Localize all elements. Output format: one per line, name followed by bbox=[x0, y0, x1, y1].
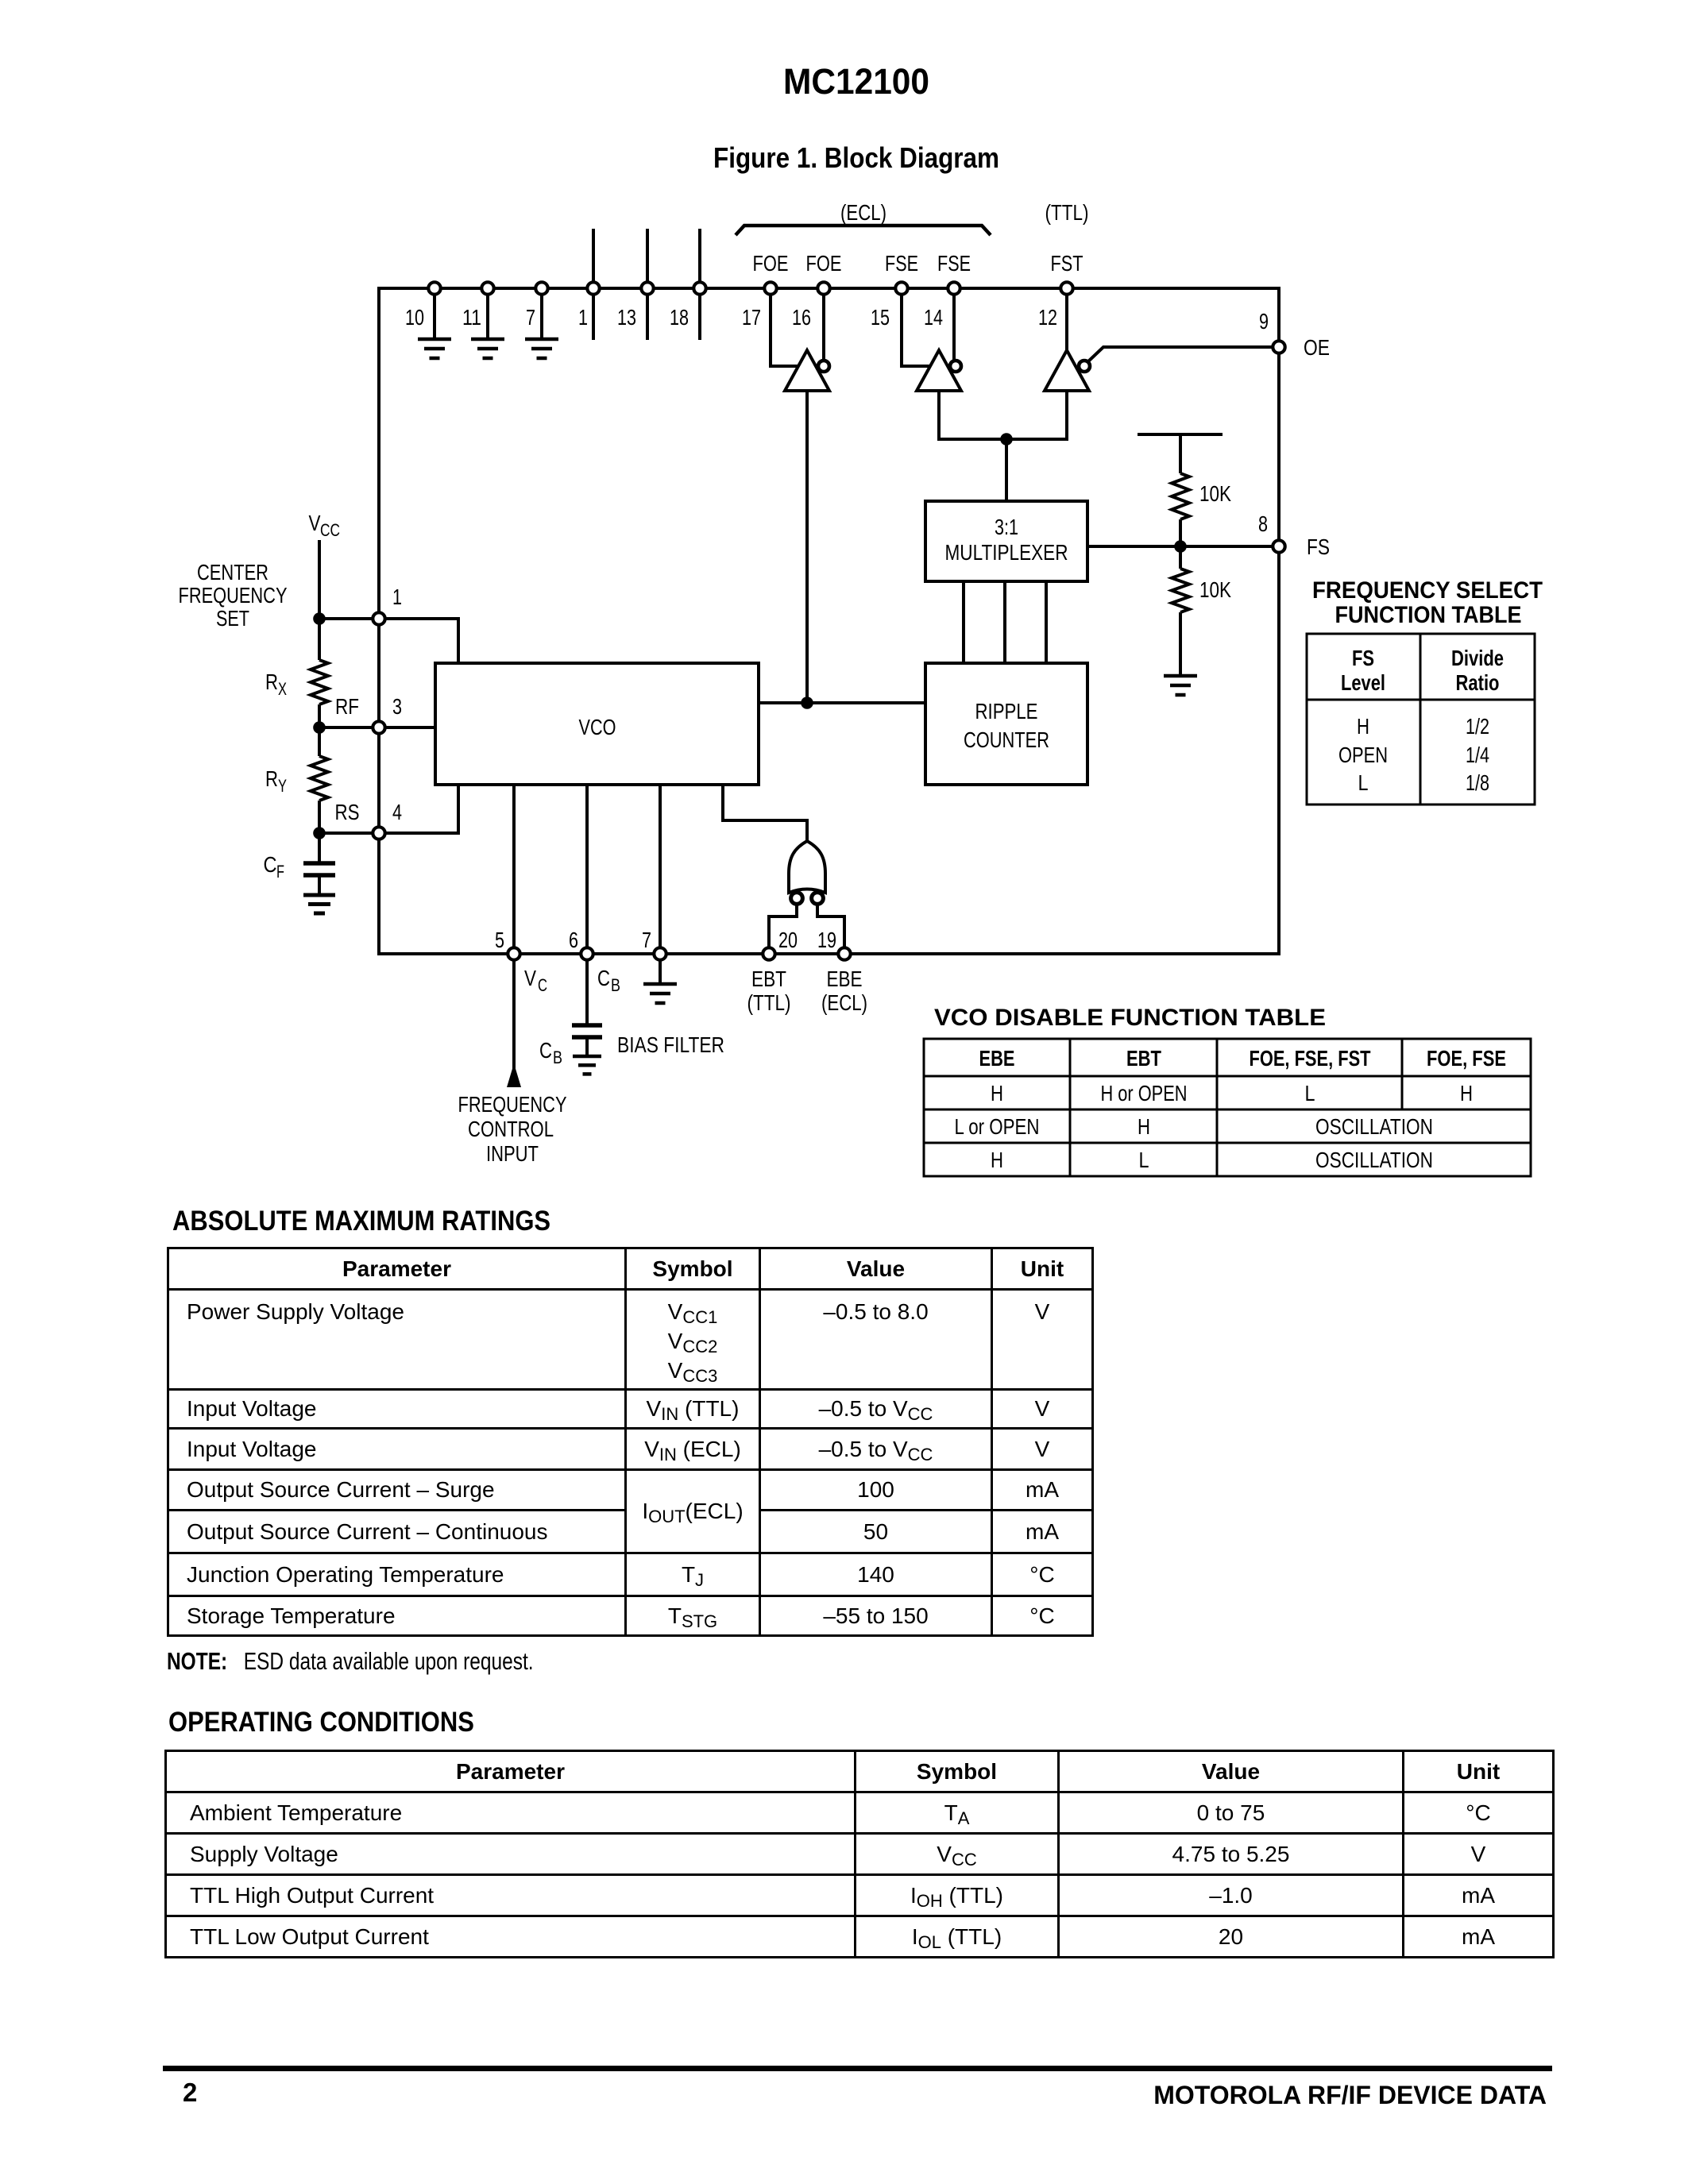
svg-text:EBT: EBT bbox=[751, 967, 786, 991]
wire buffer U1 enable from pin 16 bbox=[822, 288, 825, 361]
svg-text:SET: SET bbox=[216, 606, 249, 631]
pin 10 (top bus) bbox=[428, 282, 440, 294]
svg-text:H: H bbox=[991, 1081, 1003, 1106]
svg-text:9: 9 bbox=[1259, 309, 1269, 334]
ground below CF bbox=[303, 893, 335, 897]
pin 1 (top bus) bbox=[587, 282, 599, 294]
svg-text:V: V bbox=[309, 511, 321, 535]
svg-text:10K: 10K bbox=[1199, 481, 1231, 506]
wire R2 to ground bbox=[1179, 612, 1182, 676]
svg-text:L or OPEN: L or OPEN bbox=[955, 1114, 1040, 1139]
wire supply to R1 bbox=[1179, 434, 1182, 473]
wire VCO to pin5 bbox=[512, 785, 516, 954]
svg-text:OSCILLATION: OSCILLATION bbox=[1315, 1148, 1433, 1172]
wire VCO output to ripple counter bbox=[759, 701, 925, 704]
ECL group bracket bbox=[736, 226, 991, 235]
svg-text:B: B bbox=[611, 975, 620, 995]
wire pin1 crossing stub bbox=[592, 229, 595, 340]
svg-text:13: 13 bbox=[617, 305, 636, 330]
svg-text:BIAS FILTER: BIAS FILTER bbox=[617, 1032, 724, 1057]
wire RY to RS node bbox=[318, 801, 321, 833]
buffer U3 (FST TTL output) bbox=[1045, 350, 1089, 391]
svg-text:Ratio: Ratio bbox=[1456, 670, 1500, 695]
svg-text:11: 11 bbox=[462, 305, 481, 330]
svg-text:VCO: VCO bbox=[579, 715, 616, 739]
svg-text:FREQUENCY: FREQUENCY bbox=[179, 583, 288, 608]
pin 4 RS bbox=[373, 827, 384, 839]
svg-text:7: 7 bbox=[526, 305, 535, 330]
svg-text:10: 10 bbox=[405, 305, 424, 330]
ground below CB bbox=[573, 1055, 601, 1059]
svg-text:MULTIPLEXER: MULTIPLEXER bbox=[945, 540, 1068, 565]
junction RS node bbox=[313, 827, 326, 839]
svg-text:X: X bbox=[278, 679, 287, 699]
svg-text:C: C bbox=[264, 852, 277, 877]
wire pin1 to VCO top bbox=[319, 619, 458, 663]
arrow frequency control input bbox=[507, 1063, 521, 1087]
pin 7 (top bus) bbox=[535, 282, 547, 294]
ground at pin 7 (bottom) bbox=[643, 982, 677, 986]
svg-text:CC: CC bbox=[320, 520, 340, 540]
svg-text:RF: RF bbox=[335, 694, 359, 719]
pin 3 RF bbox=[373, 721, 384, 733]
svg-text:FREQUENCY: FREQUENCY bbox=[458, 1092, 567, 1117]
wire pin6 to CB bbox=[585, 954, 589, 1024]
svg-text:CONTROL: CONTROL bbox=[468, 1117, 554, 1141]
pin 13 (top bus) bbox=[641, 282, 653, 294]
input bubble U4 right bbox=[812, 893, 824, 905]
svg-text:12: 12 bbox=[1038, 305, 1057, 330]
svg-text:FSE: FSE bbox=[937, 251, 971, 276]
junction VCC / pin1 bbox=[313, 612, 326, 625]
wire VCC stub bbox=[318, 540, 321, 619]
svg-text:R: R bbox=[265, 669, 278, 694]
svg-text:(ECL): (ECL) bbox=[840, 200, 886, 225]
svg-text:16: 16 bbox=[792, 305, 811, 330]
svg-text:19: 19 bbox=[817, 928, 836, 952]
svg-text:8: 8 bbox=[1258, 511, 1268, 536]
junction VCO output tap bbox=[801, 696, 813, 709]
wire to resistor RX bbox=[318, 619, 321, 660]
svg-text:H: H bbox=[991, 1148, 1003, 1172]
wire U1 output to VCO/ripple node bbox=[805, 391, 809, 703]
svg-text:V: V bbox=[524, 966, 536, 990]
svg-text:Divide: Divide bbox=[1451, 646, 1504, 670]
freq select table frame bbox=[1307, 634, 1535, 805]
svg-text:VCO DISABLE FUNCTION TABLE: VCO DISABLE FUNCTION TABLE bbox=[934, 1005, 1326, 1031]
pin 8 FS bbox=[1273, 540, 1284, 552]
svg-text:5: 5 bbox=[495, 928, 504, 952]
wire CB to ground bbox=[585, 1039, 589, 1056]
pin 11 (top bus) bbox=[481, 282, 493, 294]
vco disable header line bbox=[924, 1075, 1531, 1078]
svg-text:L: L bbox=[1139, 1148, 1149, 1172]
svg-text:Y: Y bbox=[278, 776, 287, 796]
wire FS node to R2 bbox=[1179, 546, 1182, 569]
buffer U1 (FOE ECL output) bbox=[785, 350, 829, 391]
ground below R2 bbox=[1164, 674, 1197, 678]
svg-text:RIPPLE: RIPPLE bbox=[975, 699, 1038, 723]
svg-text:FOE: FOE bbox=[753, 251, 789, 276]
pin 12 (top bus) bbox=[1060, 282, 1072, 294]
resistor RX bbox=[311, 660, 328, 704]
pin 15 (top bus) bbox=[895, 282, 907, 294]
svg-text:INPUT: INPUT bbox=[486, 1141, 539, 1166]
svg-text:1: 1 bbox=[578, 305, 588, 330]
svg-text:1/4: 1/4 bbox=[1466, 743, 1489, 767]
svg-text:EBT: EBT bbox=[1126, 1046, 1161, 1071]
wire VCO to pin7 bottom bbox=[659, 785, 662, 954]
wire U4 left input from pin 20 bbox=[769, 904, 797, 954]
svg-text:FUNCTION TABLE: FUNCTION TABLE bbox=[1335, 602, 1522, 628]
svg-text:1/2: 1/2 bbox=[1466, 714, 1489, 739]
pin 7 (bottom bus) bbox=[654, 947, 666, 959]
wire RX to RF node bbox=[318, 704, 321, 727]
svg-text:4: 4 bbox=[392, 800, 402, 824]
svg-text:FREQUENCY SELECT: FREQUENCY SELECT bbox=[1312, 577, 1543, 604]
block VCO bbox=[435, 663, 759, 785]
vco disable row line 2 bbox=[924, 1142, 1531, 1144]
pin 6 CB bbox=[581, 947, 593, 959]
wire pin10 ground stub bbox=[433, 288, 436, 339]
ground at pin 7 (top) bbox=[525, 338, 558, 341]
ground at pin 10 bbox=[418, 338, 451, 341]
vco disable col line 3 bbox=[1401, 1039, 1404, 1109]
wire pin18 crossing stub bbox=[698, 229, 701, 340]
pin 1 (left bus) bbox=[373, 612, 384, 624]
buffer U2 (FSE ECL output) bbox=[917, 350, 961, 391]
svg-text:EBE: EBE bbox=[979, 1046, 1015, 1071]
svg-text:(ECL): (ECL) bbox=[821, 990, 867, 1015]
svg-text:7: 7 bbox=[642, 928, 651, 952]
svg-text:FOE: FOE bbox=[806, 251, 842, 276]
svg-text:FOE, FSE: FOE, FSE bbox=[1427, 1046, 1506, 1071]
svg-text:R: R bbox=[265, 766, 278, 791]
svg-text:1/8: 1/8 bbox=[1466, 770, 1489, 795]
svg-text:MC12100: MC12100 bbox=[783, 61, 929, 102]
enable bubble U1 bbox=[818, 361, 829, 372]
wire mux select A bbox=[962, 581, 965, 663]
wire buffer U3 input from pin 12 bbox=[1065, 288, 1068, 350]
wire pin4 RS to VCO bottom bbox=[319, 785, 458, 833]
pin 9 OE bbox=[1273, 341, 1284, 353]
svg-text:CENTER: CENTER bbox=[197, 560, 268, 585]
svg-text:EBE: EBE bbox=[827, 967, 863, 991]
svg-text:L: L bbox=[1358, 770, 1369, 795]
svg-text:H or OPEN: H or OPEN bbox=[1101, 1081, 1188, 1106]
wire to multiplexer input bbox=[1005, 439, 1008, 501]
svg-text:17: 17 bbox=[742, 305, 761, 330]
svg-text:FOE, FSE, FST: FOE, FSE, FST bbox=[1250, 1046, 1371, 1071]
svg-text:H: H bbox=[1460, 1081, 1473, 1106]
pin 5 VC bbox=[508, 947, 520, 959]
junction RF node bbox=[313, 721, 326, 734]
svg-text:20: 20 bbox=[778, 928, 798, 952]
resistor R1 10K bbox=[1172, 473, 1189, 519]
svg-text:H: H bbox=[1357, 714, 1369, 739]
pin 19 EBE bbox=[838, 947, 850, 959]
wire pin7 bottom to ground bbox=[659, 954, 662, 984]
wire R1 to FS node bbox=[1179, 519, 1182, 546]
wire mux select C bbox=[1045, 581, 1048, 663]
svg-text:FS: FS bbox=[1307, 534, 1330, 559]
freq select table header line bbox=[1307, 699, 1535, 701]
freq select table column line bbox=[1420, 634, 1422, 805]
svg-text:FSE: FSE bbox=[885, 251, 918, 276]
junction FS divider node bbox=[1174, 540, 1187, 553]
vco disable col line 1 bbox=[1069, 1039, 1072, 1176]
svg-text:COUNTER: COUNTER bbox=[964, 727, 1049, 752]
wire VCO to pin6 bbox=[585, 785, 589, 954]
svg-text:14: 14 bbox=[924, 305, 943, 330]
svg-text:H: H bbox=[1138, 1114, 1150, 1139]
svg-text:(TTL): (TTL) bbox=[1045, 200, 1089, 225]
svg-text:Figure 1. Block Diagram: Figure 1. Block Diagram bbox=[713, 141, 999, 174]
svg-text:15: 15 bbox=[871, 305, 890, 330]
wire multiplexer output to FS pin 8 bbox=[1087, 545, 1273, 548]
vco disable col line 2 bbox=[1216, 1039, 1219, 1176]
svg-text:L: L bbox=[1305, 1081, 1315, 1106]
capacitor CF bbox=[303, 861, 335, 866]
capacitor CB bbox=[572, 1023, 602, 1028]
enable bubble U3 bbox=[1079, 361, 1090, 372]
svg-text:C: C bbox=[539, 1038, 552, 1063]
wire buffer U1 input from pin 17 bbox=[771, 288, 798, 366]
pin 16 (top bus) bbox=[817, 282, 829, 294]
svg-text:Level: Level bbox=[1341, 670, 1385, 695]
svg-text:F: F bbox=[276, 862, 284, 882]
ground at pin 11 bbox=[471, 338, 504, 341]
resistor R2 10K bbox=[1172, 569, 1189, 612]
pin 20 EBT bbox=[763, 947, 774, 959]
svg-text:6: 6 bbox=[569, 928, 578, 952]
wire pin11 ground stub bbox=[486, 288, 489, 339]
svg-text:3: 3 bbox=[392, 694, 402, 719]
wire frequency control input bbox=[512, 954, 516, 1087]
svg-text:C: C bbox=[597, 966, 610, 990]
svg-text:C: C bbox=[538, 975, 547, 995]
svg-text:B: B bbox=[553, 1048, 562, 1067]
vco disable table frame bbox=[924, 1039, 1531, 1176]
wire U4 right input from pin 19 bbox=[817, 904, 844, 954]
junction buffer outputs bbox=[1000, 433, 1013, 446]
wire CF to ground bbox=[318, 877, 321, 895]
wire RS to CF bbox=[318, 833, 321, 862]
wire pin7 ground stub bbox=[540, 288, 543, 339]
package outline bus (VCC/pin ring) bbox=[379, 288, 1279, 954]
wire mux select B bbox=[1003, 581, 1006, 663]
pin 14 (top bus) bbox=[948, 282, 960, 294]
block 3:1 MULTIPLEXER bbox=[925, 501, 1087, 581]
svg-text:OPEN: OPEN bbox=[1338, 743, 1388, 767]
vco disable row line 1 bbox=[924, 1109, 1531, 1111]
svg-text:1: 1 bbox=[392, 585, 402, 609]
pin 17 (top bus) bbox=[764, 282, 776, 294]
wire U3 enable from OE pin 9 bbox=[1087, 347, 1273, 362]
block RIPPLE COUNTER bbox=[925, 663, 1087, 785]
wire buffer U2 input from pin 15 bbox=[902, 288, 929, 366]
wire pin3 RF to VCO bbox=[319, 726, 435, 729]
svg-text:FS: FS bbox=[1352, 646, 1374, 670]
svg-text:3:1: 3:1 bbox=[995, 515, 1018, 539]
svg-text:FST: FST bbox=[1051, 251, 1083, 276]
wire U3 output bbox=[1006, 391, 1067, 439]
svg-text:18: 18 bbox=[670, 305, 689, 330]
NOR gate U4 (VCO disable) bbox=[789, 841, 825, 893]
wire U2 output bbox=[939, 391, 1006, 439]
pin 18 (top bus) bbox=[693, 282, 705, 294]
enable bubble U2 bbox=[950, 361, 961, 372]
svg-text:RS: RS bbox=[335, 800, 360, 824]
input bubble U4 left bbox=[791, 893, 803, 905]
wire VCO enable to NOR gate bbox=[723, 785, 807, 840]
wire pin13 crossing stub bbox=[646, 229, 649, 340]
svg-text:10K: 10K bbox=[1199, 577, 1231, 602]
svg-text:OSCILLATION: OSCILLATION bbox=[1315, 1114, 1433, 1139]
svg-text:OE: OE bbox=[1304, 335, 1330, 360]
svg-text:(TTL): (TTL) bbox=[747, 990, 791, 1015]
wire buffer U2 enable from pin 14 bbox=[952, 288, 956, 361]
pull-up supply bar bbox=[1138, 433, 1223, 436]
resistor RY bbox=[318, 727, 321, 756]
